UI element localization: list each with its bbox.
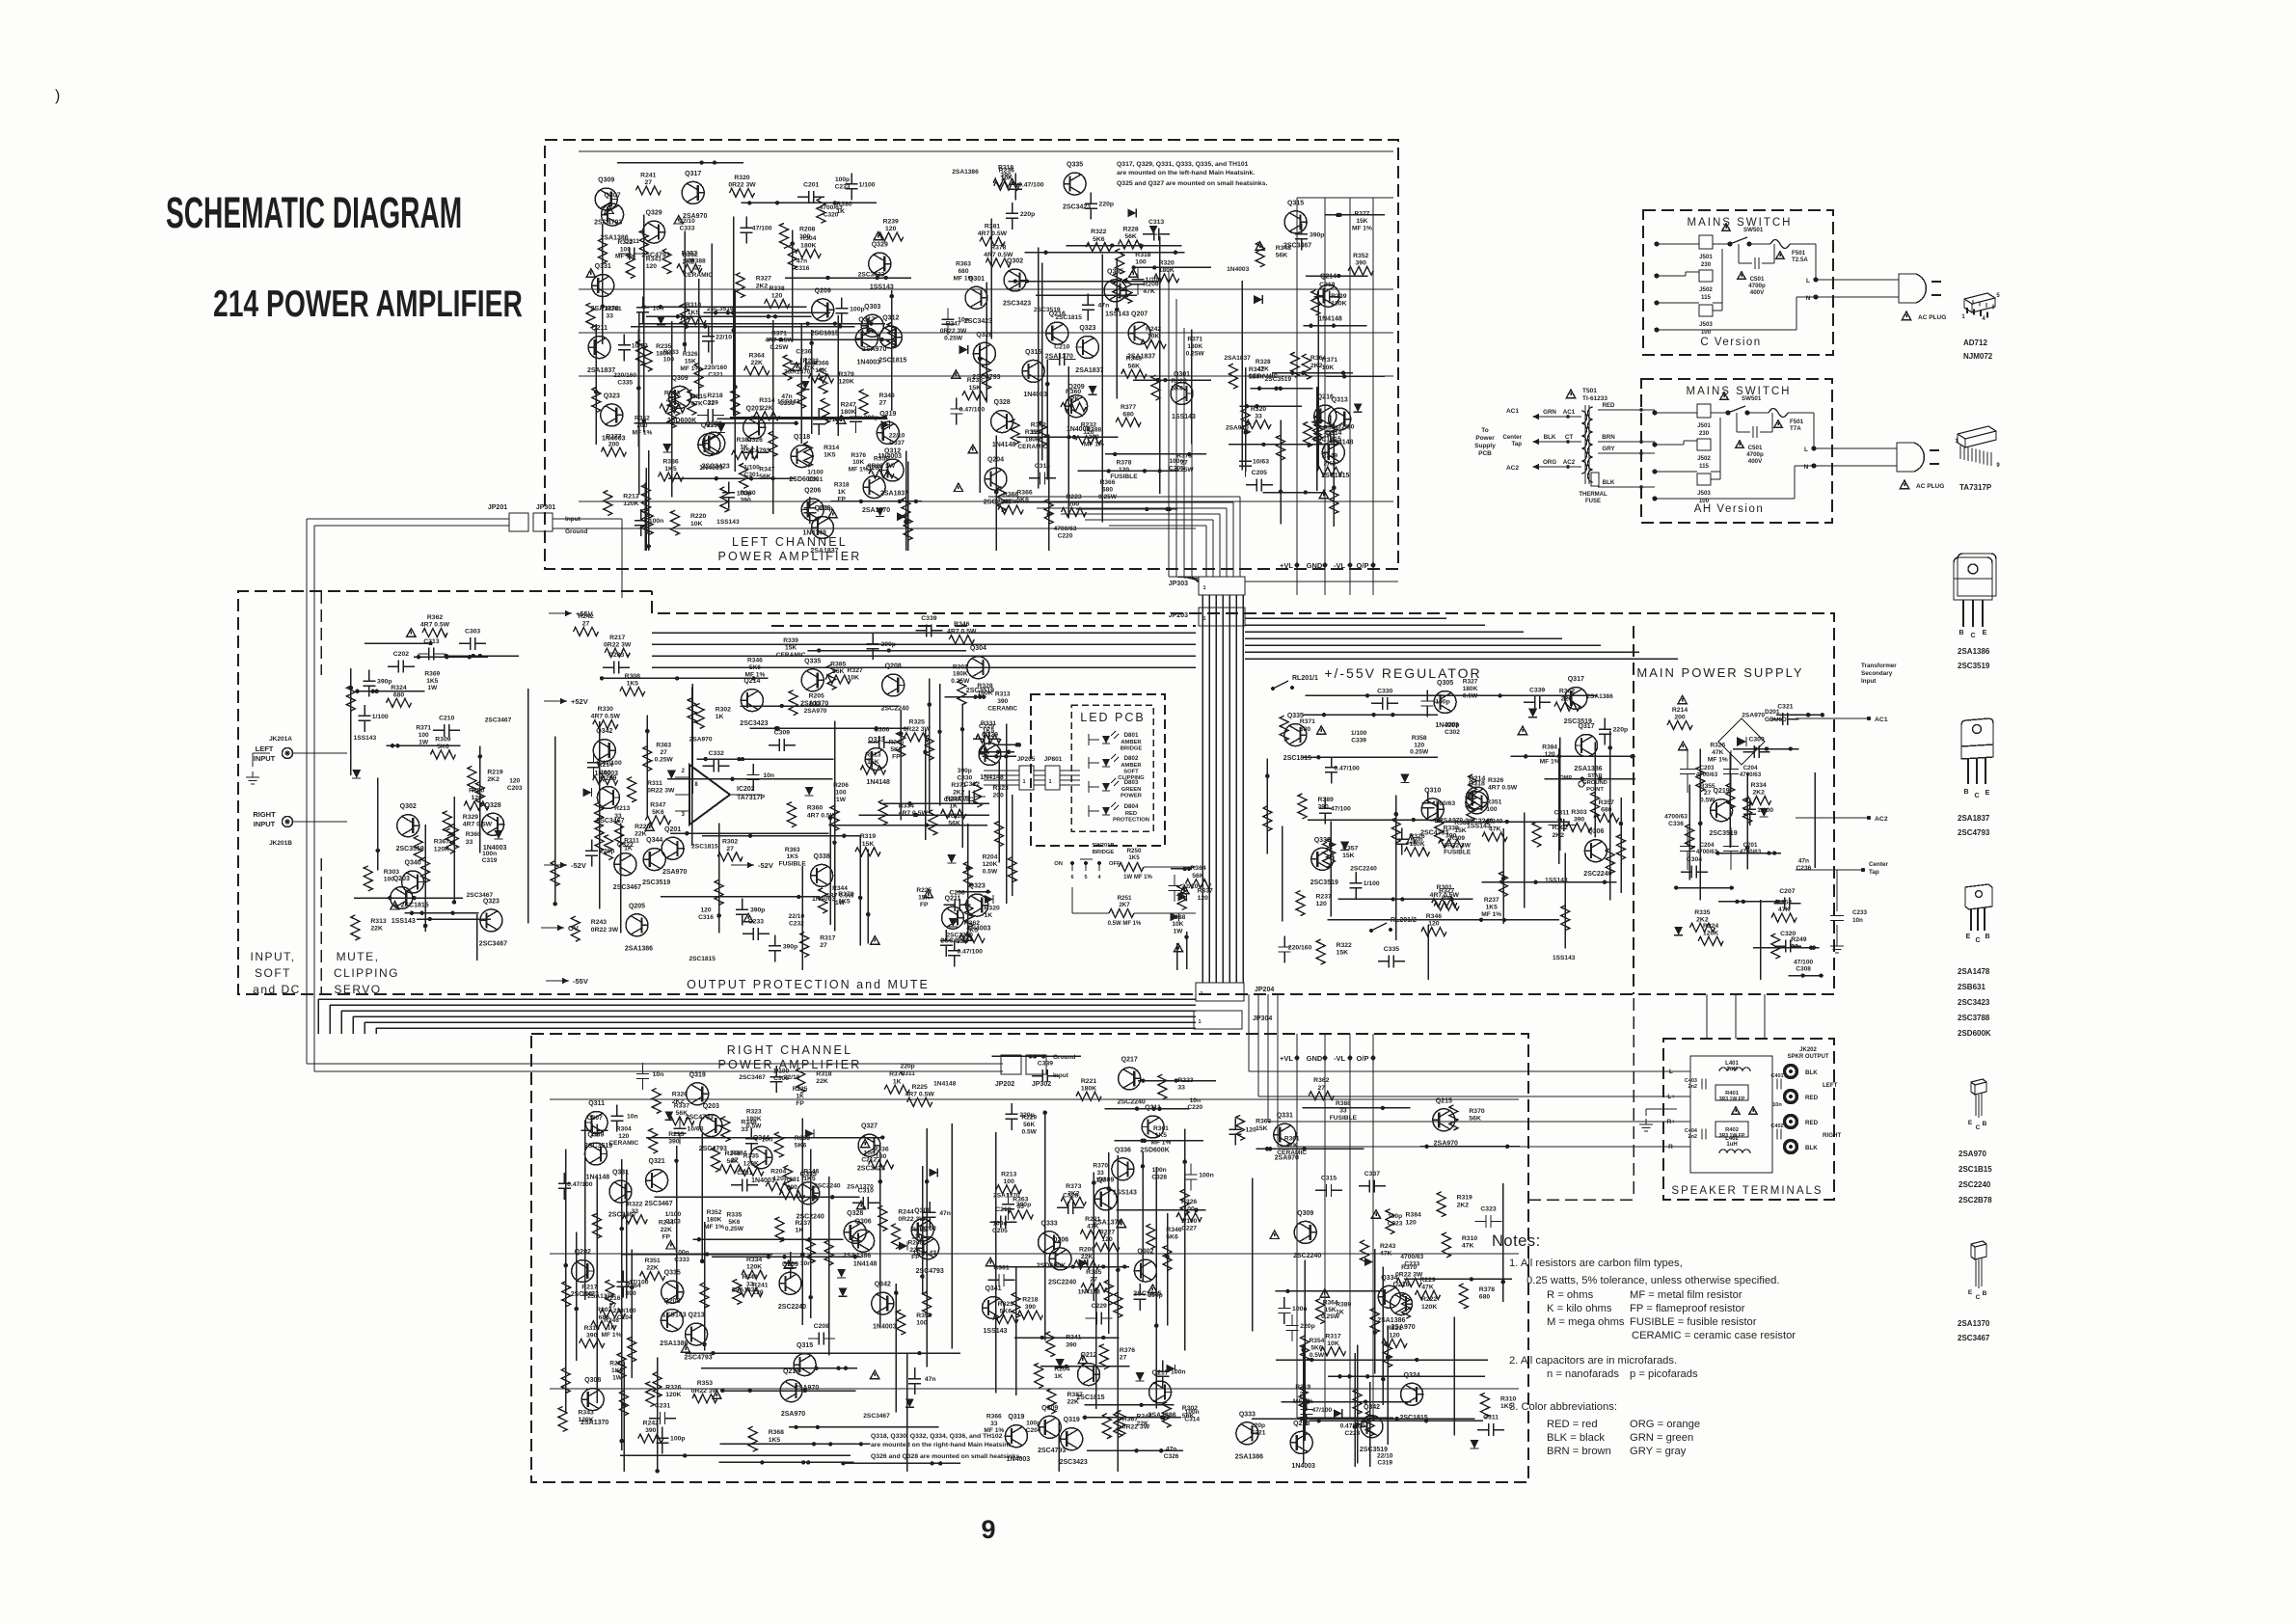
svg-text:R357: R357: [682, 250, 697, 257]
svg-text:120: 120: [1119, 467, 1129, 474]
svg-text:R361: R361: [1153, 1125, 1169, 1132]
svg-text:R348: R348: [1126, 356, 1142, 363]
svg-text:MF 1%: MF 1%: [704, 1224, 724, 1231]
svg-text:R376: R376: [1120, 1347, 1135, 1354]
svg-text:2SA970: 2SA970: [1440, 818, 1463, 825]
svg-text:GBU6D: GBU6D: [1765, 717, 1787, 723]
svg-text:AC2: AC2: [1563, 459, 1576, 466]
svg-text:B: B: [1963, 789, 1968, 796]
svg-text:1W: 1W: [836, 797, 847, 803]
svg-text:R213: R213: [668, 1131, 684, 1138]
svg-text:C313: C313: [1148, 219, 1164, 226]
svg-text:R334: R334: [899, 802, 914, 809]
svg-text:Q208: Q208: [885, 663, 902, 670]
svg-text:47K: 47K: [1421, 1284, 1434, 1290]
svg-text:27: 27: [1300, 1392, 1308, 1398]
svg-text:R215: R215: [609, 1361, 625, 1367]
svg-text:Q319: Q319: [879, 411, 896, 418]
svg-text:1SS143: 1SS143: [777, 399, 800, 406]
svg-text:R347: R347: [759, 466, 774, 473]
svg-text:BLK: BLK: [1805, 1069, 1818, 1076]
svg-text:R218: R218: [1022, 1297, 1038, 1304]
svg-text:47/100: 47/100: [1312, 1407, 1333, 1414]
svg-text:-VL: -VL: [1334, 561, 1346, 570]
svg-text:0.47/100: 0.47/100: [959, 407, 986, 414]
svg-text:Supply: Supply: [1474, 443, 1496, 449]
svg-text:2K2: 2K2: [756, 283, 769, 289]
svg-text:LEFT CHANNEL: LEFT CHANNEL: [732, 535, 848, 549]
svg-text:100p: 100p: [670, 1436, 686, 1443]
svg-text:R362: R362: [964, 920, 980, 927]
svg-text:2SA970: 2SA970: [1226, 424, 1249, 431]
svg-text:C333: C333: [674, 1257, 689, 1263]
svg-text:220p: 220p: [1445, 722, 1459, 729]
svg-text:C301: C301: [993, 1264, 1009, 1271]
svg-text:2SA1478: 2SA1478: [1958, 967, 1990, 976]
svg-text:R318: R318: [834, 482, 850, 489]
svg-text:R359: R359: [1025, 429, 1040, 436]
svg-text:BRN = brown: BRN = brown: [1547, 1446, 1611, 1457]
svg-text:Q338: Q338: [814, 853, 830, 860]
svg-text:R371: R371: [1300, 718, 1315, 725]
svg-text:CERAMIC = ceramic case res: CERAMIC = ceramic case resistor: [1632, 1330, 1796, 1341]
svg-text:1N4003: 1N4003: [1227, 266, 1249, 273]
svg-text:SPEAKER TERMINALS: SPEAKER TERMINALS: [1671, 1185, 1823, 1197]
svg-text:1/100: 1/100: [372, 714, 389, 720]
svg-text:56K: 56K: [1469, 1116, 1481, 1123]
svg-text:27: 27: [1704, 790, 1712, 797]
svg-text:CERAMIC: CERAMIC: [608, 1140, 638, 1147]
svg-text:C: C: [1970, 633, 1975, 639]
svg-text:2SC3423: 2SC3423: [1958, 998, 1990, 1007]
svg-text:Q303: Q303: [864, 304, 880, 311]
svg-text:47K: 47K: [1462, 1243, 1474, 1250]
svg-text:2SA1386: 2SA1386: [625, 945, 653, 952]
svg-text:INPUT: INPUT: [254, 820, 276, 828]
svg-text:2SC1815: 2SC1815: [811, 330, 839, 337]
svg-text:180K: 180K: [1159, 267, 1175, 274]
svg-text:RED: RED: [1125, 811, 1137, 817]
svg-text:0.47/100: 0.47/100: [567, 1181, 593, 1188]
svg-text:R311: R311: [647, 780, 662, 787]
svg-text:R326: R326: [672, 1092, 688, 1098]
svg-text:33: 33: [1255, 414, 1262, 420]
svg-text:RED: RED: [1805, 1095, 1819, 1101]
svg-text:C202: C202: [393, 651, 409, 658]
svg-text:C303: C303: [665, 1218, 681, 1225]
svg-text:R318: R318: [1135, 252, 1150, 258]
svg-text:R387: R387: [1067, 1392, 1083, 1398]
svg-text:R385: R385: [1086, 1269, 1101, 1276]
svg-text:POWER: POWER: [1121, 794, 1143, 799]
svg-text:1W: 1W: [612, 1374, 623, 1381]
svg-text:Q317: Q317: [685, 171, 701, 177]
svg-text:-55V: -55V: [573, 977, 588, 986]
svg-text:10n: 10n: [763, 772, 774, 779]
svg-text:C303: C303: [465, 628, 480, 635]
svg-text:2SC3467: 2SC3467: [863, 1413, 890, 1420]
svg-text:L: L: [1806, 278, 1810, 284]
svg-text:C314: C314: [1184, 1417, 1200, 1423]
svg-text:390: 390: [1356, 259, 1367, 266]
svg-text:Tap: Tap: [1511, 441, 1522, 447]
svg-text:PROTECTION: PROTECTION: [1113, 818, 1149, 824]
svg-text:R223: R223: [1066, 494, 1081, 501]
svg-text:180K: 180K: [1081, 1085, 1096, 1092]
svg-text:15K: 15K: [1337, 950, 1349, 957]
svg-text:1N4148: 1N4148: [866, 779, 890, 786]
svg-text:R324: R324: [391, 685, 406, 691]
svg-text:C339: C339: [1529, 687, 1545, 693]
svg-text:p = picofarads: p = picofarads: [1630, 1368, 1698, 1380]
svg-text:R208: R208: [799, 226, 815, 232]
svg-text:2SA1837: 2SA1837: [587, 367, 615, 374]
svg-text:Q342: Q342: [1364, 1404, 1380, 1411]
svg-text:R318: R318: [584, 1325, 600, 1332]
svg-text:27: 27: [694, 265, 702, 272]
svg-text:47K: 47K: [1087, 1223, 1099, 1230]
svg-text:JK201B: JK201B: [269, 840, 292, 847]
svg-text:Q344: Q344: [646, 837, 662, 844]
svg-text:D802: D802: [1124, 755, 1139, 762]
svg-text:15K: 15K: [1342, 853, 1355, 859]
svg-text:C402: C402: [1770, 1123, 1783, 1129]
svg-text:TA7317P: TA7317P: [1959, 483, 1992, 492]
svg-text:C233: C233: [1852, 909, 1868, 916]
svg-text:5K6: 5K6: [1166, 1234, 1178, 1241]
svg-text:0.25 watts, 5% tolerance,: 0.25 watts, 5% tolerance, unless otherwi…: [1526, 1275, 1779, 1286]
svg-text:R222: R222: [1421, 1296, 1437, 1303]
svg-text:+VL: +VL: [1280, 561, 1293, 570]
svg-text:C203: C203: [507, 785, 523, 792]
svg-text:680: 680: [1122, 411, 1134, 418]
svg-text:ORG: ORG: [1543, 459, 1556, 466]
svg-text:C212: C212: [861, 1157, 877, 1164]
svg-text:R346: R346: [1426, 913, 1442, 920]
svg-text:BLK: BLK: [1544, 434, 1556, 441]
svg-text:180K: 180K: [1025, 437, 1040, 444]
svg-text:R369: R369: [424, 670, 440, 677]
svg-text:1K: 1K: [893, 1078, 902, 1085]
svg-text:47/100: 47/100: [1794, 959, 1814, 965]
svg-text:J501: J501: [1699, 254, 1713, 260]
svg-text:R388: R388: [690, 257, 706, 264]
svg-text:1N4148: 1N4148: [586, 1175, 610, 1181]
svg-text:2SC3467: 2SC3467: [644, 1201, 672, 1207]
svg-text:120: 120: [1428, 921, 1440, 928]
svg-text:R239: R239: [883, 219, 899, 226]
svg-text:390p: 390p: [750, 907, 766, 914]
svg-text:R364: R364: [1310, 355, 1326, 362]
svg-text:Q329: Q329: [646, 210, 662, 217]
svg-text:180K: 180K: [800, 243, 816, 250]
svg-text:R361: R361: [1284, 1135, 1300, 1142]
svg-text:C220: C220: [1187, 1104, 1202, 1111]
svg-text:R219: R219: [1295, 1384, 1310, 1391]
svg-text:Q325 and Q327 are mounted on s: Q325 and Q327 are mounted on small heats…: [1117, 180, 1267, 187]
svg-text:R228: R228: [1122, 227, 1138, 233]
svg-text:47n: 47n: [1166, 1446, 1176, 1452]
svg-text:56K: 56K: [1128, 363, 1141, 369]
svg-text:GROUND: GROUND: [1582, 780, 1607, 786]
svg-text:0.47/100: 0.47/100: [1018, 182, 1044, 189]
svg-text:C301: C301: [744, 472, 760, 478]
svg-text:R213: R213: [865, 752, 880, 759]
svg-text:4700/63: 4700/63: [1432, 800, 1456, 807]
svg-text:R326: R326: [1488, 777, 1503, 784]
svg-text:0.5W: 0.5W: [1463, 692, 1478, 699]
svg-text:R317: R317: [1325, 1333, 1340, 1340]
svg-text:4R7 0.5W: 4R7 0.5W: [463, 821, 493, 827]
svg-text:C319: C319: [482, 857, 498, 864]
svg-text:100: 100: [876, 1153, 887, 1160]
svg-text:C321: C321: [1777, 704, 1793, 711]
svg-text:MF 1%: MF 1%: [632, 429, 652, 436]
svg-text:JP801: JP801: [1044, 756, 1063, 763]
svg-text:C326: C326: [747, 437, 763, 444]
svg-text:200: 200: [993, 793, 1005, 799]
svg-text:R355: R355: [1700, 783, 1715, 790]
svg-text:AMBER: AMBER: [1121, 763, 1142, 769]
svg-text:POINT: POINT: [1586, 787, 1604, 793]
svg-text:100n: 100n: [1292, 1306, 1308, 1313]
svg-text:Q309: Q309: [598, 177, 614, 184]
svg-text:C: C: [1976, 1294, 1981, 1301]
svg-text:Q313: Q313: [1332, 397, 1348, 404]
svg-text:2SA1386: 2SA1386: [1958, 647, 1990, 656]
svg-text:22K: 22K: [761, 405, 773, 412]
svg-text:0.47/100: 0.47/100: [1334, 765, 1360, 771]
svg-text:1N4003: 1N4003: [751, 1177, 775, 1184]
svg-text:120K: 120K: [1421, 1304, 1437, 1311]
svg-text:R346: R346: [1166, 1227, 1181, 1233]
svg-text:R348: R348: [1276, 245, 1291, 252]
svg-text:Q215: Q215: [1436, 1097, 1452, 1104]
svg-text:120: 120: [1246, 1127, 1257, 1134]
svg-text:180K: 180K: [953, 671, 968, 678]
svg-text:C309: C309: [774, 730, 790, 737]
svg-text:200: 200: [1089, 434, 1099, 441]
svg-text:2SC1815: 2SC1815: [691, 844, 718, 851]
svg-text:120: 120: [472, 795, 483, 801]
svg-text:115: 115: [1699, 463, 1710, 470]
svg-text:Q311: Q311: [1145, 1105, 1161, 1112]
svg-text:100p: 100p: [1388, 1213, 1402, 1220]
svg-text:C231: C231: [737, 1170, 752, 1177]
svg-text:1uH: 1uH: [1726, 1142, 1737, 1148]
svg-text:-52V: -52V: [758, 861, 773, 870]
svg-text:390: 390: [997, 698, 1008, 705]
svg-text:1/100: 1/100: [1351, 730, 1367, 737]
svg-text:R359: R359: [916, 1313, 932, 1319]
svg-text:100: 100: [1183, 1206, 1195, 1213]
svg-text:n = nanofarads: n = nanofarads: [1547, 1368, 1619, 1380]
svg-text:R334: R334: [746, 1257, 762, 1263]
svg-text:10K: 10K: [1172, 921, 1183, 928]
svg-text:390: 390: [586, 1333, 598, 1340]
svg-text:115: 115: [1701, 294, 1712, 301]
svg-text:Q302: Q302: [1007, 258, 1023, 265]
svg-text:22/10: 22/10: [1337, 424, 1354, 431]
svg-text:5K6: 5K6: [1093, 236, 1105, 243]
svg-text:R310: R310: [1462, 1235, 1477, 1242]
svg-text:R360: R360: [807, 805, 823, 812]
svg-text:R350: R350: [469, 788, 484, 795]
svg-text:3R3 1W FP: 3R3 1W FP: [1719, 1133, 1745, 1139]
svg-text:R309: R309: [435, 737, 450, 744]
svg-text:47/100: 47/100: [1331, 806, 1351, 813]
svg-text:R366: R366: [1016, 490, 1032, 497]
svg-text:2SC4793: 2SC4793: [1958, 828, 1990, 837]
svg-text:GRN = green: GRN = green: [1630, 1432, 1693, 1444]
svg-text:R361: R361: [606, 306, 621, 312]
svg-text:R341: R341: [646, 257, 662, 263]
svg-text:4700/63: 4700/63: [1740, 771, 1762, 778]
svg-text:2K7: 2K7: [1119, 902, 1130, 908]
svg-text:GRY: GRY: [1602, 446, 1615, 452]
svg-text:120: 120: [700, 907, 711, 914]
svg-text:R337: R337: [1198, 887, 1213, 894]
svg-text:BRIDGE: BRIDGE: [1121, 746, 1143, 752]
svg-text:47K: 47K: [1712, 749, 1723, 756]
svg-text:0.25W: 0.25W: [725, 1226, 744, 1232]
svg-text:200: 200: [1068, 501, 1080, 508]
svg-text:390: 390: [625, 1290, 636, 1297]
svg-text:2K2: 2K2: [1752, 790, 1765, 797]
svg-text:R335: R335: [727, 1211, 743, 1218]
svg-text:22K: 22K: [1067, 396, 1080, 403]
svg-text:1/100: 1/100: [665, 1211, 682, 1218]
svg-text:R333: R333: [663, 349, 679, 356]
svg-text:Q341: Q341: [985, 1286, 1001, 1292]
svg-text:MF 1%: MF 1%: [602, 1332, 622, 1339]
svg-text:MF 1%: MF 1%: [1084, 441, 1104, 447]
svg-text:R311: R311: [624, 838, 639, 845]
svg-text:1. All resistors are carbo: 1. All resistors are carbon film types,: [1509, 1258, 1683, 1269]
svg-text:Q335: Q335: [804, 658, 821, 664]
svg-text:AMBER: AMBER: [1121, 740, 1142, 745]
svg-text:POWER AMPLIFIER: POWER AMPLIFIER: [718, 1058, 862, 1071]
svg-text:C330: C330: [957, 775, 972, 782]
svg-text:BRIDGE: BRIDGE: [1093, 850, 1115, 855]
svg-text:4R7 0.5W: 4R7 0.5W: [591, 714, 621, 720]
svg-text:100: 100: [663, 357, 675, 364]
svg-text:and DC: and DC: [253, 983, 301, 996]
svg-text:5K6: 5K6: [795, 1143, 807, 1150]
svg-text:0.25W: 0.25W: [655, 756, 674, 763]
svg-text:Tap: Tap: [1869, 869, 1879, 876]
svg-text:GRN: GRN: [1543, 409, 1556, 416]
svg-text:R335: R335: [1694, 909, 1710, 916]
svg-text:Q342: Q342: [875, 1282, 891, 1288]
svg-text:Q317, Q329, Q331, Q333, Q335,: Q317, Q329, Q331, Q333, Q335, and TH101: [1117, 161, 1249, 168]
svg-text:1: 1: [1022, 779, 1025, 785]
svg-text:4700/63: 4700/63: [820, 204, 843, 211]
svg-text:FP: FP: [796, 1100, 804, 1107]
svg-text:15K: 15K: [785, 644, 797, 651]
svg-text:390p: 390p: [1016, 1202, 1032, 1208]
svg-text:C335: C335: [1384, 946, 1399, 953]
svg-text:Q307: Q307: [605, 193, 621, 200]
svg-text:C328: C328: [1151, 1174, 1167, 1180]
svg-text:R341: R341: [1066, 1335, 1081, 1341]
svg-text:22/10: 22/10: [889, 433, 905, 440]
svg-text:Q336: Q336: [1115, 1147, 1131, 1153]
svg-text:R242: R242: [578, 613, 593, 620]
svg-text:MF 1%: MF 1%: [744, 671, 765, 678]
svg-text:390p: 390p: [783, 943, 798, 950]
svg-text:Center: Center: [1869, 861, 1888, 868]
svg-text:C328: C328: [1063, 1192, 1078, 1199]
svg-text:Q218: Q218: [783, 1368, 799, 1375]
svg-text:AH Version: AH Version: [1694, 503, 1765, 515]
svg-text:120K: 120K: [746, 1263, 762, 1270]
svg-text:400V: 400V: [1750, 289, 1765, 296]
svg-text:C335: C335: [617, 380, 633, 387]
svg-text:2SC1815: 2SC1815: [878, 358, 906, 365]
svg-text:3. Color abbreviations:: 3. Color abbreviations:: [1509, 1401, 1617, 1413]
svg-text:C204: C204: [617, 1314, 633, 1321]
svg-text:120: 120: [509, 778, 520, 785]
svg-text:22K: 22K: [646, 1265, 659, 1272]
svg-text:E: E: [1985, 790, 1990, 797]
svg-text:33: 33: [466, 839, 473, 846]
svg-text:R320: R320: [985, 906, 1000, 912]
svg-text:C332: C332: [709, 750, 724, 757]
svg-text:10n: 10n: [762, 1136, 773, 1143]
svg-text:GND: GND: [1307, 1054, 1323, 1063]
svg-text:C401: C401: [1770, 1073, 1783, 1079]
svg-text:R229: R229: [1021, 1115, 1037, 1122]
svg-text:47K: 47K: [1778, 907, 1791, 913]
svg-text:R363: R363: [656, 743, 671, 749]
svg-text:0.5W: 0.5W: [1022, 1129, 1038, 1136]
svg-text:1K5: 1K5: [627, 681, 639, 688]
svg-text:1SS143: 1SS143: [716, 519, 740, 526]
svg-text:R237: R237: [1484, 897, 1499, 904]
svg-text:R308: R308: [625, 673, 640, 680]
svg-text:To: To: [1481, 427, 1488, 434]
svg-text:CERAMIC: CERAMIC: [987, 705, 1017, 712]
svg-text:OUTPUT PROTECTION and MUTE: OUTPUT PROTECTION and MUTE: [687, 978, 930, 991]
svg-text:0R22 3W: 0R22 3W: [868, 463, 896, 470]
svg-text:2SA970: 2SA970: [781, 1411, 805, 1418]
svg-text:1: 1: [1048, 779, 1051, 785]
svg-text:O/P: O/P: [1357, 1054, 1369, 1063]
svg-text:R322: R322: [627, 1201, 642, 1207]
svg-text:100p: 100p: [737, 490, 752, 497]
svg-text:0R22 3W: 0R22 3W: [898, 1216, 926, 1223]
svg-text:R302: R302: [1553, 825, 1568, 831]
svg-text:+VL: +VL: [1280, 1054, 1293, 1063]
svg-text:R386: R386: [662, 459, 678, 466]
svg-text:47n: 47n: [797, 258, 807, 265]
svg-text:R318: R318: [816, 1070, 831, 1077]
svg-text:Q217: Q217: [1121, 1056, 1138, 1063]
svg-text:R323: R323: [998, 1301, 1013, 1308]
svg-text:R344: R344: [832, 885, 848, 892]
svg-text:Q335: Q335: [1107, 268, 1123, 275]
svg-text:56K: 56K: [676, 1110, 689, 1117]
svg-text:1N4148: 1N4148: [992, 442, 1016, 448]
svg-text:Q308: Q308: [584, 1377, 601, 1384]
svg-text:R221: R221: [1081, 1078, 1096, 1085]
svg-text:TA7317P: TA7317P: [737, 795, 765, 801]
svg-text:Q318: Q318: [794, 434, 810, 441]
svg-text:2SC3788: 2SC3788: [1958, 1014, 1990, 1022]
svg-text:Q338: Q338: [1314, 837, 1331, 844]
svg-text:ON: ON: [1054, 861, 1063, 867]
